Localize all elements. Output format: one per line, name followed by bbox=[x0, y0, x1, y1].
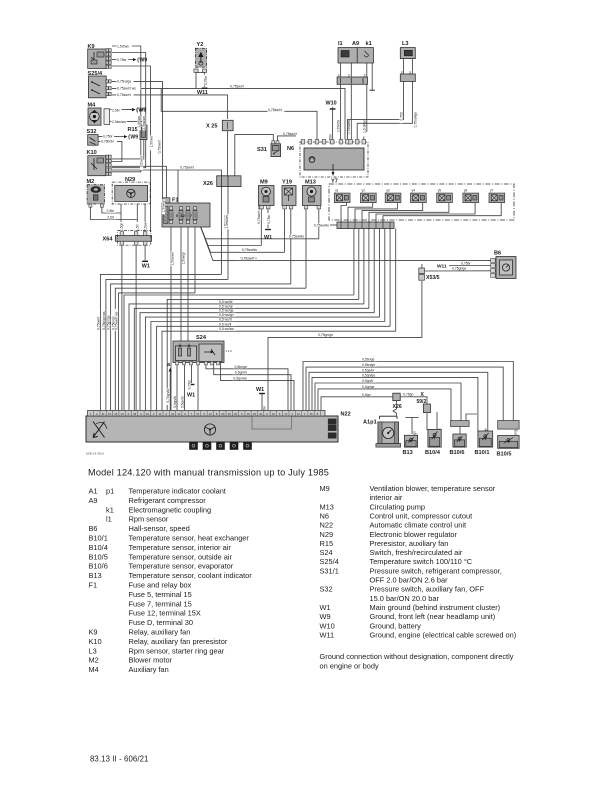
svg-text:Temperature sensor, outside ai: Temperature sensor, outside air bbox=[129, 552, 233, 561]
svg-text:0,5gn/li: 0,5gn/li bbox=[362, 379, 373, 383]
svg-text:0,5gn/ws: 0,5gn/ws bbox=[233, 377, 247, 381]
svg-text:Electromagnetic coupling: Electromagnetic coupling bbox=[129, 505, 212, 514]
svg-text:Fuse and relay box: Fuse and relay box bbox=[129, 581, 192, 590]
svg-text:0,5 ws/rt: 0,5 ws/rt bbox=[219, 318, 232, 322]
svg-text:Ground, engine (electrical cab: Ground, engine (electrical cable screwed… bbox=[370, 630, 517, 639]
svg-text:0,5ge/br: 0,5ge/br bbox=[362, 368, 375, 372]
svg-text:0,75br: 0,75br bbox=[103, 135, 113, 139]
svg-text:W1: W1 bbox=[256, 387, 264, 393]
svg-text:2,5rt: 2,5rt bbox=[107, 216, 114, 220]
svg-text:B10/5: B10/5 bbox=[89, 552, 108, 561]
svg-text:W9: W9 bbox=[130, 135, 138, 141]
svg-text:Relay, auxiliary fan: Relay, auxiliary fan bbox=[129, 628, 191, 637]
svg-text:Main ground (behind instrument: Main ground (behind instrument cluster) bbox=[370, 603, 501, 612]
svg-text:M4: M4 bbox=[89, 665, 99, 674]
svg-text:M9: M9 bbox=[260, 180, 268, 186]
svg-text:0,5ge/br: 0,5ge/br bbox=[180, 395, 184, 408]
svg-text:Ground connection without desi: Ground connection without designation, c… bbox=[320, 652, 514, 661]
svg-text:X53/5: X53/5 bbox=[426, 275, 440, 281]
svg-text:K10: K10 bbox=[89, 637, 102, 646]
svg-text:2,5bl: 2,5bl bbox=[107, 209, 115, 213]
svg-text:A9: A9 bbox=[352, 41, 359, 47]
svg-text:Temperature sensor, evaporator: Temperature sensor, evaporator bbox=[129, 562, 234, 571]
svg-text:0,5 ws/sw: 0,5 ws/sw bbox=[219, 327, 234, 331]
svg-text:0,5sw/rt: 0,5sw/rt bbox=[140, 156, 144, 167]
svg-text:y2: y2 bbox=[362, 189, 366, 193]
svg-text:S24: S24 bbox=[196, 335, 207, 341]
svg-text:W1: W1 bbox=[264, 235, 272, 241]
svg-text:W9: W9 bbox=[139, 58, 147, 64]
svg-text:14: 14 bbox=[209, 412, 212, 416]
svg-text:1,5rt/ws: 1,5rt/ws bbox=[117, 44, 129, 48]
svg-text:Model 124.120 with manual tran: Model 124.120 with manual transmission u… bbox=[88, 468, 329, 478]
svg-text:13: 13 bbox=[146, 412, 149, 416]
svg-text:M9: M9 bbox=[320, 484, 330, 493]
svg-text:0,75sw/rt: 0,75sw/rt bbox=[180, 166, 194, 170]
svg-text:Ground, front left (near headl: Ground, front left (near headlamp unit) bbox=[370, 612, 496, 621]
svg-text:15: 15 bbox=[108, 412, 111, 416]
svg-text:Y2: Y2 bbox=[197, 42, 204, 48]
svg-text:0,75sw/ge: 0,75sw/ge bbox=[413, 112, 417, 128]
svg-text:0,75sw/ks: 0,75sw/ks bbox=[314, 223, 329, 227]
svg-text:S32: S32 bbox=[320, 585, 333, 594]
svg-text:y3: y3 bbox=[386, 189, 390, 193]
svg-text:7: 7 bbox=[190, 214, 192, 218]
svg-text:0,5gn/bl: 0,5gn/bl bbox=[173, 396, 177, 408]
svg-text:Ground, battery: Ground, battery bbox=[370, 621, 422, 630]
svg-text:B13: B13 bbox=[89, 571, 102, 580]
svg-text:W11: W11 bbox=[320, 630, 335, 639]
svg-text:0,5 ws/bl: 0,5 ws/bl bbox=[219, 300, 233, 304]
svg-text:N22: N22 bbox=[341, 412, 351, 418]
svg-text:B6: B6 bbox=[89, 524, 98, 533]
svg-text:y6: y6 bbox=[464, 189, 468, 193]
svg-text:M2: M2 bbox=[87, 179, 95, 185]
svg-text:k1: k1 bbox=[106, 505, 114, 514]
svg-text:0,75sw/ks: 0,75sw/ks bbox=[242, 248, 257, 252]
svg-text:0,5 ws/gr: 0,5 ws/gr bbox=[219, 304, 234, 308]
svg-text:Relay, auxiliary fan preresist: Relay, auxiliary fan preresistor bbox=[129, 637, 228, 646]
svg-text:0,75sw/rt: 0,75sw/rt bbox=[230, 84, 244, 88]
svg-text:1,5sw/gr: 1,5sw/gr bbox=[182, 251, 186, 264]
svg-text:y1: y1 bbox=[335, 189, 339, 193]
svg-text:Electronic blower regulator: Electronic blower regulator bbox=[370, 530, 458, 539]
svg-text:Temperature sensor, heat excha: Temperature sensor, heat exchanger bbox=[129, 534, 250, 543]
svg-text:y4: y4 bbox=[412, 189, 416, 193]
svg-text:X 25: X 25 bbox=[206, 124, 218, 130]
svg-text:0,5br/ge: 0,5br/ge bbox=[362, 358, 375, 362]
svg-text:0,5 ws/gn: 0,5 ws/gn bbox=[219, 313, 234, 317]
svg-text:A9: A9 bbox=[89, 496, 98, 505]
svg-text:W10: W10 bbox=[326, 101, 337, 107]
svg-text:0,75bl/br: 0,75bl/br bbox=[101, 140, 115, 144]
svg-text:0,75sw/rt: 0,75sw/rt bbox=[157, 140, 161, 153]
svg-text:Pressure switch, refrigerant c: Pressure switch, refrigerant compressor, bbox=[370, 566, 502, 575]
svg-text:S25/4: S25/4 bbox=[320, 557, 339, 566]
svg-text:W9: W9 bbox=[320, 612, 331, 621]
svg-text:0,75rt: 0,75rt bbox=[399, 112, 403, 121]
svg-text:2,5sw/ws: 2,5sw/ws bbox=[142, 116, 146, 130]
svg-text:W1: W1 bbox=[187, 393, 195, 399]
svg-text:17: 17 bbox=[284, 412, 287, 416]
svg-text:0,75br: 0,75br bbox=[461, 261, 471, 265]
svg-text:K10: K10 bbox=[87, 150, 97, 156]
svg-text:2,5br: 2,5br bbox=[112, 108, 121, 112]
svg-text:0,5bn/ge: 0,5bn/ge bbox=[362, 363, 375, 367]
svg-text:19: 19 bbox=[228, 412, 231, 416]
svg-text:0,75sw/rt: 0,75sw/rt bbox=[268, 108, 282, 112]
svg-text:y7: y7 bbox=[490, 189, 494, 193]
svg-text:Y19: Y19 bbox=[282, 180, 292, 186]
svg-text:0,75br: 0,75br bbox=[267, 214, 271, 224]
svg-text:B13: B13 bbox=[403, 450, 413, 456]
svg-text:S31: S31 bbox=[257, 147, 267, 153]
svg-text:S31/1: S31/1 bbox=[320, 566, 339, 575]
svg-text:0,75sw/rt v: 0,75sw/rt v bbox=[241, 257, 258, 261]
svg-text:a: a bbox=[167, 362, 170, 368]
svg-text:OFF 2.0 bar/ON 2.6 bar: OFF 2.0 bar/ON 2.6 bar bbox=[370, 576, 449, 585]
svg-text:22: 22 bbox=[234, 412, 237, 416]
svg-text:18: 18 bbox=[133, 412, 136, 416]
svg-text:10: 10 bbox=[121, 412, 124, 416]
svg-text:W11: W11 bbox=[197, 90, 208, 96]
svg-text:M13: M13 bbox=[320, 502, 334, 511]
svg-text:W9: W9 bbox=[138, 108, 146, 114]
svg-text:N6: N6 bbox=[287, 146, 294, 152]
svg-text:0,75sw/rt: 0,75sw/rt bbox=[96, 317, 100, 330]
svg-text:N22: N22 bbox=[320, 521, 334, 530]
svg-text:Fuse D, terminal 30: Fuse D, terminal 30 bbox=[129, 618, 194, 627]
svg-text:Pressure switch, auxiliary fan: Pressure switch, auxiliary fan, OFF bbox=[370, 585, 485, 594]
svg-text:Ventilation blower, temperatur: Ventilation blower, temperature sensor bbox=[370, 484, 496, 493]
svg-text:B6: B6 bbox=[494, 251, 501, 257]
svg-text:17: 17 bbox=[196, 412, 199, 416]
svg-text:0,75gn/ge: 0,75gn/ge bbox=[318, 333, 333, 337]
svg-text:0,75rt/bl: 0,75rt/bl bbox=[336, 120, 340, 132]
svg-text:B10/6: B10/6 bbox=[450, 450, 465, 456]
svg-text:interior air: interior air bbox=[370, 493, 403, 502]
svg-text:B10/1: B10/1 bbox=[89, 534, 108, 543]
svg-text:I1: I1 bbox=[338, 41, 343, 47]
svg-text:X26: X26 bbox=[393, 404, 402, 410]
svg-text:B10/5: B10/5 bbox=[497, 451, 512, 457]
svg-text:0,5gn: 0,5gn bbox=[362, 393, 371, 397]
svg-text:2,5sw/ws: 2,5sw/ws bbox=[112, 120, 126, 124]
svg-text:12: 12 bbox=[181, 214, 185, 218]
svg-text:1,5sw/ws: 1,5sw/ws bbox=[171, 252, 175, 266]
svg-text:16: 16 bbox=[247, 412, 250, 416]
svg-text:B10/4: B10/4 bbox=[89, 543, 108, 552]
svg-text:Control unit, compressor cutou: Control unit, compressor cutout bbox=[370, 511, 473, 520]
svg-text:83.13 II - 606/21: 83.13 II - 606/21 bbox=[90, 755, 149, 764]
svg-text:A1p1: A1p1 bbox=[363, 420, 377, 426]
svg-text:0,75bl/gn ws: 0,75bl/gn ws bbox=[102, 311, 106, 330]
svg-text:B10/6: B10/6 bbox=[89, 562, 108, 571]
svg-text:0,75gn/ge: 0,75gn/ge bbox=[107, 315, 111, 330]
svg-text:Blower motor: Blower motor bbox=[129, 656, 173, 665]
svg-text:0,75sw/ks: 0,75sw/ks bbox=[289, 235, 304, 239]
svg-text:16: 16 bbox=[114, 412, 117, 416]
svg-text:1,5gn: 1,5gn bbox=[119, 223, 123, 231]
svg-text:0,75sw/rt: 0,75sw/rt bbox=[117, 93, 131, 97]
svg-text:0,75sw/rt: 0,75sw/rt bbox=[283, 132, 297, 136]
svg-text:S24: S24 bbox=[320, 548, 333, 557]
svg-text:W1: W1 bbox=[142, 264, 150, 270]
svg-text:k1: k1 bbox=[366, 41, 372, 47]
svg-text:1830-14 300/1: 1830-14 300/1 bbox=[86, 452, 104, 456]
svg-text:21: 21 bbox=[102, 412, 105, 416]
svg-text:Hall-sensor, speed: Hall-sensor, speed bbox=[129, 524, 190, 533]
svg-text:10: 10 bbox=[259, 412, 262, 416]
svg-text:0,5gn/ge: 0,5gn/ge bbox=[362, 373, 375, 377]
svg-text:5: 5 bbox=[176, 214, 178, 218]
svg-text:15: 15 bbox=[310, 412, 313, 416]
svg-text:Rpm sensor, starter ring gear: Rpm sensor, starter ring gear bbox=[129, 646, 225, 655]
svg-text:12: 12 bbox=[297, 412, 300, 416]
svg-text:0,5 ws/ge: 0,5 ws/ge bbox=[219, 309, 234, 313]
svg-text:0,75ro/ge: 0,75ro/ge bbox=[117, 80, 131, 84]
svg-text:0,5br/ge: 0,5br/ge bbox=[235, 365, 248, 369]
svg-text:0,75sw/rt ws: 0,75sw/rt ws bbox=[117, 86, 136, 90]
svg-text:1,5rt/ws: 1,5rt/ws bbox=[150, 136, 154, 148]
svg-text:M13: M13 bbox=[305, 180, 316, 186]
svg-text:Circulating pump: Circulating pump bbox=[370, 502, 425, 511]
svg-text:Temperature switch 100/110 °C: Temperature switch 100/110 °C bbox=[370, 557, 473, 566]
svg-text:Switch, fresh/recirculated air: Switch, fresh/recirculated air bbox=[370, 548, 463, 557]
svg-text:0,75sw/rt ws: 0,75sw/rt ws bbox=[115, 311, 119, 330]
svg-text:X26: X26 bbox=[203, 181, 213, 187]
svg-text:Fuse 7, terminal 15: Fuse 7, terminal 15 bbox=[129, 599, 192, 608]
svg-text:1 2 3: 1 2 3 bbox=[226, 349, 233, 353]
svg-text:Automatic climate control unit: Automatic climate control unit bbox=[370, 521, 467, 530]
svg-text:Auxiliary fan: Auxiliary fan bbox=[129, 665, 169, 674]
svg-text:23: 23 bbox=[253, 412, 256, 416]
svg-text:1,5 bl/ge: 1,5 bl/ge bbox=[363, 120, 367, 133]
svg-text:Fuse 12, terminal 15X: Fuse 12, terminal 15X bbox=[129, 609, 201, 618]
svg-text:0,75br: 0,75br bbox=[187, 379, 191, 389]
svg-text:W1: W1 bbox=[320, 603, 331, 612]
svg-text:W10: W10 bbox=[320, 621, 335, 630]
svg-text:W11: W11 bbox=[437, 263, 447, 269]
svg-text:20: 20 bbox=[221, 412, 224, 416]
svg-text:2,5sw: 2,5sw bbox=[144, 222, 148, 231]
svg-text:A1: A1 bbox=[89, 487, 98, 496]
svg-text:p1: p1 bbox=[106, 487, 114, 496]
svg-text:0,5 ws/li: 0,5 ws/li bbox=[219, 322, 231, 326]
svg-text:0,75gn: 0,75gn bbox=[403, 393, 413, 397]
svg-text:0,75sr: 0,75sr bbox=[117, 58, 127, 62]
svg-text:M2: M2 bbox=[89, 656, 99, 665]
svg-text:Temperature sensor, interior a: Temperature sensor, interior air bbox=[129, 543, 232, 552]
svg-text:0,75gr/ge: 0,75gr/ge bbox=[452, 267, 466, 271]
svg-text:X64: X64 bbox=[103, 237, 114, 243]
svg-text:B10/1: B10/1 bbox=[475, 450, 490, 456]
svg-text:Temperature indicator coolant: Temperature indicator coolant bbox=[129, 487, 226, 496]
svg-text:0,75gn/bl: 0,75gn/bl bbox=[166, 389, 170, 403]
svg-text:1,5rt: 1,5rt bbox=[136, 224, 140, 231]
svg-text:Temperature sensor, coolant in: Temperature sensor, coolant indicator bbox=[129, 571, 253, 580]
svg-text:K9: K9 bbox=[89, 628, 98, 637]
svg-text:1,5sw/gr: 1,5sw/gr bbox=[162, 199, 166, 212]
svg-text:12: 12 bbox=[177, 412, 180, 416]
svg-text:1,5sw/ws: 1,5sw/ws bbox=[225, 215, 229, 229]
svg-text:F1: F1 bbox=[89, 581, 98, 590]
svg-text:Rpm sensor: Rpm sensor bbox=[129, 515, 169, 524]
svg-text:L3: L3 bbox=[89, 646, 97, 655]
svg-text:l1: l1 bbox=[106, 515, 112, 524]
svg-text:Refrigerant compressor: Refrigerant compressor bbox=[129, 496, 207, 505]
svg-text:N6: N6 bbox=[320, 511, 329, 520]
svg-text:N29: N29 bbox=[320, 530, 334, 539]
svg-text:0,75br: 0,75br bbox=[204, 75, 208, 85]
svg-text:on engine or body: on engine or body bbox=[320, 661, 379, 670]
svg-text:R15: R15 bbox=[320, 539, 334, 548]
svg-text:24: 24 bbox=[171, 412, 174, 416]
svg-text:Preresistor, auxiliary fan: Preresistor, auxiliary fan bbox=[370, 539, 449, 548]
svg-text:13: 13 bbox=[272, 412, 275, 416]
svg-text:L3: L3 bbox=[402, 41, 409, 47]
svg-text:1,5rt/ws: 1,5rt/ws bbox=[137, 116, 141, 128]
svg-text:15.0 bar/ON 20.0 bar: 15.0 bar/ON 20.0 bar bbox=[370, 594, 440, 603]
svg-text:B10/4: B10/4 bbox=[425, 450, 441, 456]
svg-text:11: 11 bbox=[159, 412, 162, 416]
svg-text:S32: S32 bbox=[87, 129, 97, 135]
svg-text:y5: y5 bbox=[438, 189, 442, 193]
svg-text:Fuse 5, terminal 15: Fuse 5, terminal 15 bbox=[129, 590, 192, 599]
svg-text:0,5gn/ni: 0,5gn/ni bbox=[235, 371, 247, 375]
svg-text:0,5gr/ge: 0,5gr/ge bbox=[362, 385, 375, 389]
